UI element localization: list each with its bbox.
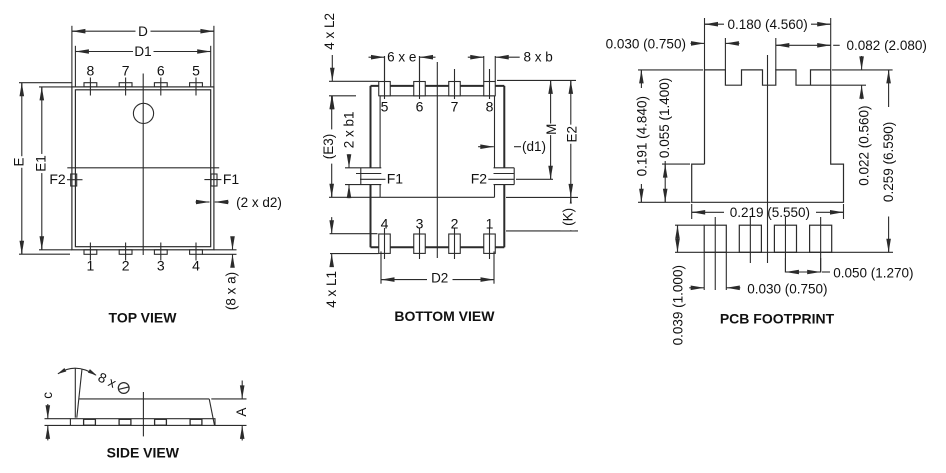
- svg-text:E2: E2: [564, 126, 579, 143]
- svg-text:3: 3: [157, 258, 165, 274]
- dimension 4 x L2 extension lines: [329, 80, 379, 82]
- svg-text:F2: F2: [49, 171, 66, 187]
- dimension (E3) line with arrows: [331, 96, 333, 130]
- theta symbol circle: [118, 383, 129, 394]
- dimension 4 x L2 arrows: [331, 55, 333, 81]
- dimension 0.191 line with arrows: [640, 70, 642, 88]
- side view pad 3: [155, 419, 167, 425]
- left side tab F1 structure: [345, 167, 381, 169]
- dimension 0.082 tick: [775, 38, 777, 70]
- dimension (K) bottom extension line: [506, 230, 578, 232]
- bottom view pin 7 pad (top row): [449, 82, 461, 96]
- dimension D2 line with arrows: [381, 279, 427, 281]
- svg-text:2: 2: [122, 258, 130, 274]
- side tab F2 pad: [71, 174, 77, 186]
- dimension 2 x b1 arrows: [348, 154, 350, 168]
- svg-text:D2: D2: [431, 271, 448, 286]
- pcb footprint pin pad 1 centerline: [714, 217, 716, 290]
- dimension 8 x b ticks: [483, 56, 485, 82]
- exposed pad bottom extension to left: [329, 196, 380, 198]
- dimension E1 label: [34, 154, 49, 173]
- bottom view pin 2 pad (bottom row): [449, 234, 461, 253]
- pin 3 centerline tick: [160, 243, 162, 261]
- svg-text:F1: F1: [223, 171, 240, 187]
- dimension D1 line with arrows: [75, 51, 133, 53]
- pin 8 centerline: [489, 69, 491, 99]
- right tab tick dash: [488, 178, 514, 180]
- bottom view pin 3 pad (bottom row): [414, 234, 426, 253]
- svg-text:0.191 (4.840): 0.191 (4.840): [634, 96, 649, 176]
- top view lead pin 3 (bottom row) pad: [154, 250, 167, 255]
- svg-text:(K): (K): [561, 208, 576, 226]
- bottom view body outline with side-tab gaps: [371, 85, 505, 87]
- dimension 0.050 line with arrows: [785, 271, 820, 273]
- svg-text:PCB FOOTPRINT: PCB FOOTPRINT: [720, 311, 835, 327]
- dimension 0.022 notch floor extension line: [811, 84, 866, 86]
- svg-text:0.180 (4.560): 0.180 (4.560): [727, 17, 807, 32]
- bottom view pin 4 pad (bottom row): [379, 234, 391, 253]
- side view centerline: [142, 392, 144, 436]
- svg-text:4: 4: [192, 258, 200, 274]
- dimension 2 x d2 arrows: [196, 201, 210, 203]
- pcb footprint pin pad 3: [774, 225, 796, 252]
- dimension A arrows: [241, 381, 243, 399]
- svg-text:(2 x d2): (2 x d2): [236, 195, 282, 210]
- bottom view pin 6 pad (top row): [414, 82, 426, 96]
- svg-text:0.030 (0.750): 0.030 (0.750): [606, 36, 686, 51]
- dimension c extension lines: [45, 418, 71, 420]
- dimension D2 extension lines: [380, 251, 382, 283]
- dimension 8 x a extension lines: [214, 249, 237, 251]
- dimension 0.039 extension lines: [675, 224, 704, 226]
- dimension 6 x e ticks: [384, 56, 386, 82]
- side view pad 1: [84, 419, 96, 425]
- exposed pad inner right line: [494, 96, 496, 168]
- pin 5 centerline: [384, 56, 386, 99]
- svg-text:1: 1: [87, 258, 95, 274]
- svg-text:2 x b1: 2 x b1: [342, 112, 357, 149]
- pcb footprint pin pad 4: [810, 225, 832, 252]
- top view lead pin 1 (bottom row) pad: [84, 250, 97, 255]
- svg-text:(E3): (E3): [321, 134, 336, 160]
- right side tab F2 structure: [494, 167, 515, 169]
- top view lead pin 7 (top row) pad: [119, 83, 132, 87]
- pcb footprint main land pattern outline with castellations: [692, 70, 844, 202]
- left tab tick dash: [360, 178, 386, 180]
- dimension 0.022 top extension line: [832, 69, 893, 71]
- dimension E1 line with arrows: [41, 87, 43, 250]
- pin 6 centerline: [419, 56, 421, 99]
- pin 7 centerline: [454, 69, 456, 99]
- dimension E label: [11, 156, 26, 168]
- dimension (d1) arrow: [478, 146, 494, 148]
- svg-text:TOP VIEW: TOP VIEW: [109, 310, 178, 326]
- dimension 0.055 step extension line: [662, 163, 690, 165]
- svg-text:0.055 (1.400): 0.055 (1.400): [657, 78, 672, 158]
- svg-text:0.259 (6.590): 0.259 (6.590): [881, 122, 896, 202]
- svg-text:7: 7: [451, 99, 459, 115]
- side view body top edge: [79, 398, 209, 400]
- side view body left slant edge with angle extension: [77, 369, 82, 418]
- svg-text:0.030 (0.750): 0.030 (0.750): [747, 281, 827, 296]
- dimension 0.030 top arrows: [691, 42, 705, 44]
- angle dimension arc 8 x theta: [58, 368, 96, 375]
- pcb footprint pin pad 4 centerline: [820, 217, 822, 273]
- svg-text:6 x e: 6 x e: [387, 50, 416, 65]
- dimension 0.039 line with arrows: [677, 225, 679, 252]
- dimension M label: [544, 124, 559, 136]
- dimension 0.180 line with arrows: [705, 23, 725, 25]
- svg-text:8: 8: [486, 99, 494, 115]
- dimension 0.022 arrows: [861, 56, 863, 70]
- svg-text:A: A: [234, 408, 249, 417]
- bottom view pin 1 pad (bottom row): [484, 234, 496, 253]
- dimension 0.050 ticks: [784, 258, 786, 273]
- pcb footprint pin pad 2: [739, 225, 761, 252]
- svg-text:0.219 (5.550): 0.219 (5.550): [730, 205, 810, 220]
- dimension 0.055 line with arrows: [664, 161, 666, 202]
- dimension M top extension line: [497, 79, 576, 81]
- svg-text:0.050 (1.270): 0.050 (1.270): [833, 265, 913, 280]
- exposed pad top line: [380, 95, 494, 97]
- dimension 0.050 leader dash: [822, 271, 830, 273]
- top view package outer body outline: [72, 87, 214, 250]
- svg-text:7: 7: [122, 63, 130, 79]
- dimension 8 x b arrows: [468, 56, 484, 58]
- dimension 0.180 extension lines: [704, 18, 706, 70]
- pads bottom baseline extension: [675, 251, 893, 253]
- svg-text:F1: F1: [387, 170, 404, 186]
- svg-text:E1: E1: [34, 155, 49, 172]
- dimension (E3) label: [321, 129, 336, 163]
- dimension (K) label: [560, 204, 575, 231]
- svg-text:4 x L2: 4 x L2: [322, 13, 337, 50]
- svg-text:c: c: [40, 392, 55, 399]
- side view pad 4: [190, 419, 202, 425]
- bottom view pin 8 pad (top row): [484, 82, 496, 96]
- dimension 0.030 bottom extension lines: [703, 252, 705, 290]
- svg-text:E: E: [11, 157, 26, 166]
- dimension E2 bottom extension line: [506, 196, 578, 198]
- dimension 6 x e arrows: [369, 56, 385, 58]
- top view lead pin 2 (bottom row) pad: [119, 250, 132, 255]
- top view lead pin 5 (top row) pad: [190, 83, 203, 87]
- pcb footprint pin pad 2 centerline: [749, 217, 751, 263]
- dimension 8 x a arrows: [232, 239, 234, 250]
- dimension 0.030 top tick: [724, 38, 726, 70]
- side tab F1 pad: [211, 174, 217, 186]
- bottom view pin 5 pad (top row): [379, 82, 391, 96]
- top view vertical centerline: [142, 74, 144, 256]
- dimension (d1) leader dash: [514, 146, 521, 148]
- dimension M line with arrows: [550, 80, 552, 179]
- svg-text:5: 5: [381, 99, 389, 115]
- dimension D1 extension lines: [74, 46, 76, 87]
- svg-text:0.022 (0.560): 0.022 (0.560): [856, 105, 871, 185]
- svg-text:M: M: [544, 124, 559, 135]
- svg-text:D: D: [138, 24, 148, 39]
- svg-text:4 x L1: 4 x L1: [324, 271, 339, 308]
- exposed pad bottom line: [380, 196, 494, 198]
- side tab F1 tick line: [204, 179, 221, 181]
- svg-text:0.039 (1.000): 0.039 (1.000): [671, 265, 686, 345]
- dimension M bottom extension line: [516, 178, 553, 180]
- svg-text:D1: D1: [134, 44, 151, 59]
- top view lead pin 6 (top row) pad: [154, 83, 167, 87]
- svg-text:6: 6: [416, 99, 424, 115]
- top view lead pin 4 (bottom row) pad: [190, 250, 203, 255]
- dimension A extension lines: [211, 398, 246, 400]
- pin 1 indicator circle: [133, 103, 153, 123]
- pin 1 centerline: [489, 228, 491, 259]
- svg-text:0.082 (2.080): 0.082 (2.080): [847, 38, 927, 53]
- dimension D line with arrows: [72, 30, 136, 32]
- side view lead frame strip: [70, 419, 215, 426]
- pin 1 centerline tick: [89, 243, 91, 261]
- dimension E2 line with arrows: [570, 80, 572, 197]
- pin 7 centerline tick: [125, 78, 127, 96]
- dimension 0.030 bottom arrows: [689, 287, 704, 289]
- svg-text:3: 3: [416, 216, 424, 232]
- pin 8 centerline tick: [89, 78, 91, 96]
- side tab F2 tick line: [67, 179, 83, 181]
- dimension E extension lines: [19, 82, 72, 84]
- dimension 0.082 line with arrows: [776, 44, 831, 46]
- pcb footprint pin pad 3 centerline: [784, 217, 786, 273]
- pin 2 centerline: [454, 228, 456, 259]
- dimension 4 x L1 extension lines: [330, 233, 378, 235]
- svg-text:5: 5: [192, 63, 200, 79]
- top view lead pin 8 (top row) pad: [84, 83, 97, 87]
- dimension D extension lines: [71, 26, 73, 87]
- exposed pad inner left line: [379, 96, 381, 168]
- pin 3 centerline: [419, 228, 421, 259]
- dimension 0.259 line with arrows: [888, 70, 890, 107]
- dimension (K) line with arrows: [570, 197, 572, 231]
- dimension 0.219 extension lines: [691, 204, 693, 219]
- pin 6 centerline tick: [160, 78, 162, 96]
- top view horizontal centerline: [67, 167, 219, 169]
- svg-text:6: 6: [157, 63, 165, 79]
- dimension E2 label: [564, 125, 579, 144]
- svg-text:F2: F2: [471, 170, 488, 186]
- side view body right slant edge: [209, 399, 214, 426]
- dimension 0.191 extension lines: [638, 69, 703, 71]
- dimension E line with arrows: [21, 83, 23, 255]
- svg-text:8 x b: 8 x b: [523, 50, 552, 65]
- pin 5 centerline tick: [195, 78, 197, 96]
- dimension 4 x L1 arrows: [331, 217, 333, 234]
- side view pad 2: [119, 419, 131, 425]
- svg-text:SIDE VIEW: SIDE VIEW: [107, 445, 180, 461]
- pin 2 centerline tick: [125, 243, 127, 261]
- svg-text:1: 1: [486, 216, 494, 232]
- pcb footprint vertical centerline: [767, 55, 769, 263]
- dimension 0.082 leader dash: [833, 44, 840, 46]
- bottom view vertical centerline: [436, 62, 438, 258]
- side view angle vertical reference line: [74, 368, 76, 418]
- pin 4 centerline tick: [195, 243, 197, 261]
- theta symbol bar: [118, 387, 129, 390]
- svg-text:4: 4: [381, 216, 389, 232]
- svg-text:2: 2: [451, 216, 459, 232]
- dimension c arrows: [47, 404, 49, 419]
- dimension 0.219 line with arrows: [692, 211, 724, 213]
- top view package inner body outline: [75, 90, 210, 247]
- dimension E1 extension lines: [39, 86, 72, 88]
- svg-text:8: 8: [87, 63, 95, 79]
- svg-text:(d1): (d1): [522, 139, 546, 154]
- pcb footprint pin pad 1: [704, 225, 726, 252]
- svg-text:(8 x a): (8 x a): [224, 272, 239, 310]
- pin 4 centerline: [384, 228, 386, 259]
- svg-text:BOTTOM VIEW: BOTTOM VIEW: [394, 308, 495, 324]
